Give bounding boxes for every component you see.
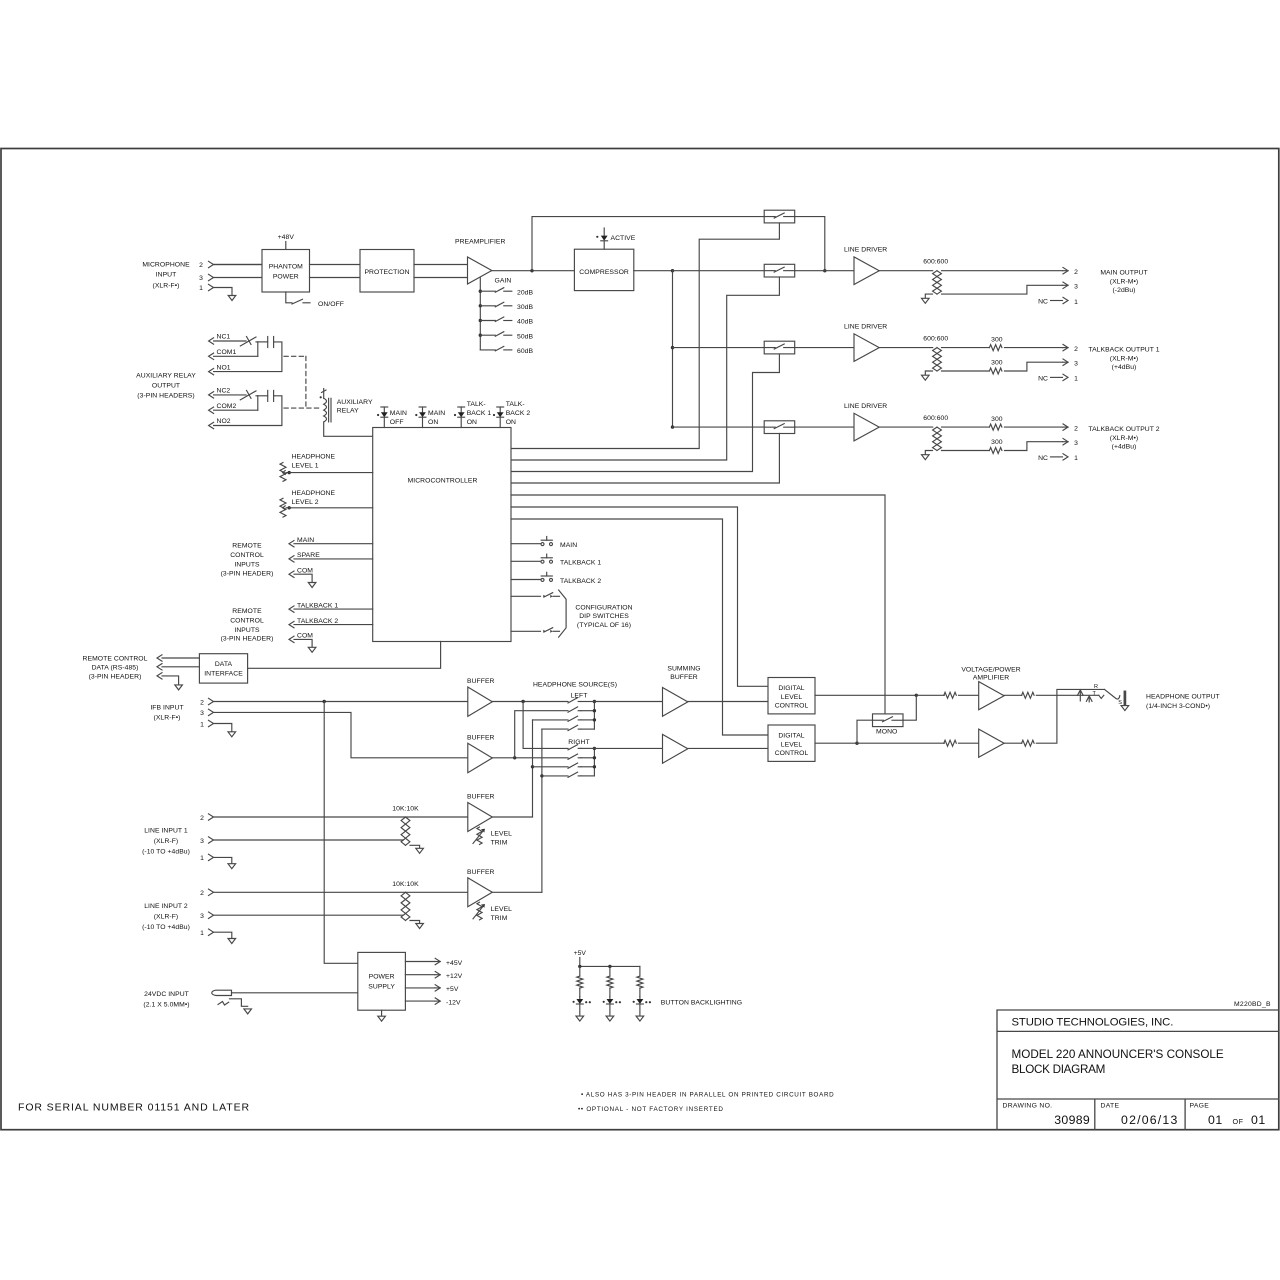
svg-text:(-10 TO +4dBu): (-10 TO +4dBu) <box>142 924 190 931</box>
wire 24VDC to power supply <box>232 992 358 994</box>
wire compressor junction down to talkback rows <box>672 271 674 427</box>
wire +48V to phantom power <box>285 242 287 250</box>
wire relay coil top lead <box>323 389 325 399</box>
relay contact NC1 <box>240 337 256 346</box>
pin RS485 A <box>157 655 162 661</box>
node compressor output junction <box>671 269 674 272</box>
svg-text:BACK 2: BACK 2 <box>506 410 531 417</box>
switch headphone source left 3 <box>568 716 578 721</box>
wire microcontroller to data interface <box>248 642 441 669</box>
svg-text:DRAWING NO.: DRAWING NO. <box>1003 1102 1053 1109</box>
protection box <box>360 250 414 293</box>
wire transformer 2 primary to ground <box>925 371 932 375</box>
wire right bus to summing buffer 2 <box>594 747 662 749</box>
svg-text:LEVEL: LEVEL <box>491 906 513 913</box>
svg-text:(3-PIN HEADERS): (3-PIN HEADERS) <box>137 392 194 399</box>
wire transformer 3 primary to ground <box>925 451 932 455</box>
wire feed to switchbox4 <box>673 426 765 428</box>
wire output 1 pin 2 <box>942 270 1063 272</box>
switch pushbutton MAIN <box>541 543 544 546</box>
svg-text:3: 3 <box>199 275 203 282</box>
node gain tap 50dB <box>479 334 482 337</box>
svg-text:LEVEL 2: LEVEL 2 <box>292 499 319 506</box>
node gain tap 20dB <box>479 290 482 293</box>
svg-text:S: S <box>1118 700 1122 706</box>
svg-text:TALKBACK OUTPUT 1: TALKBACK OUTPUT 1 <box>1088 346 1159 353</box>
power rail +5V <box>405 987 434 989</box>
svg-text:REMOTE: REMOTE <box>232 543 262 550</box>
LED backlight 1 <box>579 997 581 1000</box>
svg-text:2: 2 <box>1074 346 1078 353</box>
svg-text:MICROCONTROLLER: MICROCONTROLLER <box>408 477 478 484</box>
svg-text:INTERFACE: INTERFACE <box>204 670 243 677</box>
wire buffer1 to right bank <box>523 702 568 749</box>
svg-text:+5V: +5V <box>574 950 587 957</box>
wire mono left to DLC2 line <box>857 720 873 743</box>
svg-text:SUPPLY: SUPPLY <box>368 983 395 990</box>
svg-text:MAIN: MAIN <box>560 542 577 549</box>
svg-text:(XLR-M•): (XLR-M•) <box>1110 355 1138 362</box>
wire microcontroller to digital level control 1 <box>511 507 768 686</box>
jack ring lever <box>1105 689 1120 699</box>
wire output 1 pin 3 <box>942 285 1063 294</box>
ground backlight 1 <box>576 1016 584 1021</box>
auxiliary relay coil <box>324 398 327 422</box>
svg-text:2: 2 <box>200 699 204 706</box>
svg-text:MAIN: MAIN <box>297 537 314 544</box>
svg-text:LINE INPUT 2: LINE INPUT 2 <box>144 903 188 910</box>
svg-text:2: 2 <box>199 262 203 269</box>
node buffer2 split <box>513 756 516 759</box>
op-amp buffer 2 <box>468 743 493 772</box>
switch box talkback1 (switchbox3) <box>764 341 795 354</box>
svg-text:LEVEL 1: LEVEL 1 <box>292 463 319 470</box>
svg-text:TALKBACK 1: TALKBACK 1 <box>297 602 338 609</box>
svg-text:TALKBACK 2: TALKBACK 2 <box>297 618 338 625</box>
svg-text:2: 2 <box>200 890 204 897</box>
pin NO1 <box>209 368 214 374</box>
switch gain 30dB <box>480 305 495 307</box>
svg-text:3: 3 <box>200 913 204 920</box>
border frame <box>1 149 1279 1130</box>
wire LINE INPUT 2 pin2 to transformer/buffer <box>214 891 468 893</box>
wire DLC1 output <box>815 694 916 696</box>
svg-text:600:600: 600:600 <box>923 259 948 266</box>
phantom power box <box>262 250 310 293</box>
svg-text:3: 3 <box>1074 284 1078 291</box>
wire transformer 1 primary to ground <box>925 294 932 298</box>
data interface box <box>199 654 247 683</box>
svg-text:+48V: +48V <box>278 234 295 241</box>
wire left bank outputs bus <box>593 702 595 730</box>
node mono bottom junction <box>855 742 858 745</box>
pin NC2 <box>209 392 214 398</box>
wire IFB pin1 to ground <box>214 724 232 732</box>
LED TALK- BACK 1 ON <box>458 406 465 408</box>
wire amp1 to jack tip <box>1036 694 1099 696</box>
svg-text:2: 2 <box>1074 269 1078 276</box>
svg-text:TALK-: TALK- <box>467 401 486 408</box>
svg-text:REMOTE CONTROL: REMOTE CONTROL <box>83 655 148 662</box>
svg-text:•• OPTIONAL - NOT FACTORY INS: •• OPTIONAL - NOT FACTORY INSERTED <box>578 1106 724 1113</box>
wire relay coil to microcontroller <box>324 422 373 436</box>
wire mono right to DLC1 line <box>903 695 916 720</box>
power rail +45V <box>405 961 434 963</box>
dashed link contacts to relay coil <box>284 356 321 408</box>
svg-text:TALK-: TALK- <box>506 401 525 408</box>
svg-text:HEADPHONE SOURCE(S): HEADPHONE SOURCE(S) <box>533 682 617 689</box>
svg-text:NC2: NC2 <box>217 388 231 395</box>
svg-text:LINE DRIVER: LINE DRIVER <box>844 247 887 254</box>
switch box talkback2 (switchbox4) <box>764 421 795 434</box>
svg-text:LEVEL: LEVEL <box>491 831 513 838</box>
op-amp line driver 1 <box>854 257 879 285</box>
svg-text:1: 1 <box>200 855 204 862</box>
svg-text:(XLR-F•): (XLR-F•) <box>153 282 180 289</box>
wire backlight branch 2 <box>609 966 611 976</box>
svg-text:MICROPHONE: MICROPHONE <box>142 261 190 268</box>
wire output 3 pin 3 <box>942 450 990 452</box>
LED MAIN OFF <box>381 406 388 408</box>
wire switchbox3 control to microcontroller <box>511 354 779 472</box>
wire protection to preamp pin3 <box>414 277 468 279</box>
svg-text:HEADPHONE: HEADPHONE <box>292 454 336 461</box>
svg-text:600:600: 600:600 <box>923 336 948 343</box>
svg-text:LEVEL: LEVEL <box>781 694 803 701</box>
wire LINE INPUT 1 pin3 to transformer <box>214 839 403 841</box>
LED backlight 2 <box>609 997 611 1000</box>
svg-text:NO1: NO1 <box>217 364 231 371</box>
resistor amp2 output <box>1004 742 1022 744</box>
svg-text:STUDIO TECHNOLOGIES, INC.: STUDIO TECHNOLOGIES, INC. <box>1012 1017 1174 1029</box>
wire buffer2 to left bank row2 <box>515 711 568 758</box>
node talkback2 feed <box>671 425 674 428</box>
pin COM1 <box>209 353 214 359</box>
wire pushbutton MAIN <box>511 543 541 545</box>
switch headphone source left 2 <box>568 707 578 712</box>
svg-text:DIP SWITCHES: DIP SWITCHES <box>579 613 629 620</box>
svg-text:1: 1 <box>1074 376 1078 383</box>
ground COM 1 <box>308 583 316 588</box>
svg-text:+12V: +12V <box>446 973 463 980</box>
ground transformer 1 <box>922 298 930 303</box>
svg-text:RELAY: RELAY <box>337 408 359 415</box>
svg-text:(TYPICAL OF 16): (TYPICAL OF 16) <box>577 622 631 629</box>
pin RS485 B <box>157 664 162 670</box>
ground transformer 3 <box>922 455 930 460</box>
wire COM remote 2 to ground <box>294 639 312 647</box>
wire right bank outputs bus <box>593 748 595 776</box>
wire IFB pin2 to buffer1 <box>214 701 468 703</box>
svg-text:TALKBACK 1: TALKBACK 1 <box>560 560 601 567</box>
svg-text:FOR SERIAL NUMBER 01151 AND LA: FOR SERIAL NUMBER 01151 AND LATER <box>18 1102 250 1114</box>
svg-text:(+4dBu): (+4dBu) <box>1112 443 1137 450</box>
wire switchbox3 to line driver 2 <box>795 347 854 349</box>
wire COM2 common riser <box>257 396 259 411</box>
svg-text:OUTPUT: OUTPUT <box>152 382 180 389</box>
svg-text:AUXILIARY: AUXILIARY <box>337 399 373 406</box>
switch box bypass (switchbox1) <box>764 210 795 223</box>
switch gain 50dB <box>480 334 495 336</box>
svg-text:BUFFER: BUFFER <box>670 674 698 681</box>
svg-text:2: 2 <box>200 815 204 822</box>
svg-text:ON/OFF: ON/OFF <box>318 301 344 308</box>
svg-text:DATA (RS-485): DATA (RS-485) <box>92 664 139 671</box>
wire phantom to protection pin3 <box>310 277 361 279</box>
svg-text:(XLR-F): (XLR-F) <box>154 838 179 845</box>
svg-text:VOLTAGE/POWER: VOLTAGE/POWER <box>961 666 1020 673</box>
svg-text:02/06/13: 02/06/13 <box>1121 1113 1178 1127</box>
svg-text:SUMMING: SUMMING <box>667 665 700 672</box>
svg-text:NC: NC <box>1038 299 1048 306</box>
node wiper 2 <box>288 506 291 509</box>
svg-text:OF: OF <box>1233 1117 1244 1126</box>
level trim pot 1 <box>477 827 482 845</box>
op-amp line driver 3 <box>854 413 879 441</box>
switch headphone source right 3 <box>568 763 578 768</box>
wire transformer 2 secondary to ground <box>410 921 420 924</box>
svg-text:PREAMPLIFIER: PREAMPLIFIER <box>455 239 505 246</box>
wire buffer4 output to riser <box>492 891 542 893</box>
wire preamp output <box>492 270 532 272</box>
wire COM remote 1 to ground <box>294 574 312 582</box>
node gain tap 40dB <box>479 319 482 322</box>
resistor backlight 1 <box>577 976 583 988</box>
svg-text:ON: ON <box>428 419 438 426</box>
svg-text:MAIN: MAIN <box>428 410 445 417</box>
pin NO2 <box>209 422 214 428</box>
LED active <box>603 241 605 249</box>
barrel sleeve contact <box>218 1002 229 1006</box>
title block <box>997 1010 1279 1130</box>
switch headphone source left 1 <box>568 698 578 703</box>
ground mic pin1 <box>228 296 236 301</box>
node right bus top <box>593 747 596 750</box>
svg-text:COM: COM <box>297 633 313 640</box>
svg-text:IFB INPUT: IFB INPUT <box>150 704 183 711</box>
wire switchbox4 to line driver 3 <box>795 426 854 428</box>
wire TALKBACK 1 remote <box>294 608 373 610</box>
switch headphone source right 1 <box>568 745 578 750</box>
switch pushbutton TALKBACK 1 <box>541 560 544 563</box>
jack sleeve bar <box>1124 692 1127 705</box>
ground LINE INPUT 2 <box>228 939 236 944</box>
wire SPARE remote <box>294 558 373 560</box>
wire +5V rail <box>579 958 581 967</box>
svg-text:NC: NC <box>1038 455 1048 462</box>
svg-text:3: 3 <box>200 710 204 717</box>
wire line driver 1 to transformer <box>879 270 933 272</box>
relay contact NC2 <box>240 391 256 400</box>
node line2 right tap <box>540 774 543 777</box>
svg-text:HEADPHONE OUTPUT: HEADPHONE OUTPUT <box>1146 693 1220 700</box>
wire line input 1 feed riser <box>533 719 569 721</box>
op-amp voltage amp 2 <box>979 729 1004 757</box>
wire pushbutton TALKBACK 2 <box>511 579 541 581</box>
ground IFB <box>228 732 236 737</box>
switch box compressor path (switchbox2) <box>764 264 795 277</box>
wire mic pin2 to phantom <box>214 264 262 266</box>
svg-text:DATE: DATE <box>1101 1102 1120 1109</box>
wire pushbutton TALKBACK 1 <box>511 560 541 562</box>
svg-text:• ALSO HAS 3-PIN HEADER IN PA: • ALSO HAS 3-PIN HEADER IN PARALLEL ON P… <box>581 1091 834 1098</box>
svg-text:3: 3 <box>1074 361 1078 368</box>
svg-text:24VDC INPUT: 24VDC INPUT <box>144 991 189 998</box>
wire COM1 common riser <box>257 342 259 357</box>
switch headphone source left 4 <box>568 725 578 730</box>
potentiometer headphone level 1 <box>280 463 286 482</box>
wire summing buffer 2 to DLC2 <box>688 747 768 749</box>
svg-text:NC: NC <box>1038 375 1048 382</box>
resistor backlight 2 <box>607 976 613 988</box>
wire buffer3 output to riser <box>492 816 532 818</box>
microcontroller box <box>373 428 511 642</box>
mono switch box <box>873 714 904 727</box>
wire DLC2 output <box>815 742 857 744</box>
op-amp voltage amp 1 <box>979 682 1004 710</box>
wire LINE INPUT 2 pin1 to ground <box>214 932 232 938</box>
on/off switch <box>292 299 303 304</box>
node IFB pin2 to power supply tap <box>323 700 326 703</box>
ground transformer 10K #2 <box>416 924 424 929</box>
wire microcontroller to mono switch <box>511 495 885 714</box>
svg-text:INPUTS: INPUTS <box>234 627 260 634</box>
node talkback1 feed <box>671 346 674 349</box>
node wiper 1 <box>288 471 291 474</box>
node preamp output junction <box>530 269 533 272</box>
wire switchbox1 control to microcontroller <box>511 223 779 449</box>
wire MAIN remote <box>294 543 373 545</box>
svg-text:ON: ON <box>506 419 516 426</box>
level trim pot 2 <box>477 902 482 920</box>
svg-text:BACK 1: BACK 1 <box>467 410 492 417</box>
wire summing buffer 1 to DLC1 <box>688 701 768 703</box>
svg-text:LEVEL: LEVEL <box>781 741 803 748</box>
wire headphone level 2 to microcontroller <box>289 507 373 509</box>
resistor amp1 output <box>1004 694 1022 696</box>
svg-text:MAIN: MAIN <box>390 410 407 417</box>
barrel connector 24VDC <box>212 990 232 995</box>
switch dip bottom <box>543 630 545 633</box>
pin RS485 gnd <box>157 673 162 679</box>
svg-text:PROTECTION: PROTECTION <box>364 269 409 276</box>
wire compressor output <box>634 270 673 272</box>
svg-text:300: 300 <box>991 416 1003 423</box>
op-amp buffer 1 <box>468 687 493 716</box>
switch headphone source right 4 <box>568 772 578 777</box>
ground backlight 3 <box>636 1016 644 1021</box>
switch gain 40dB <box>480 320 495 322</box>
svg-text:MODEL 220 ANNOUNCER'S CONSOLE: MODEL 220 ANNOUNCER'S CONSOLE <box>1012 1048 1224 1061</box>
svg-text:TALKBACK OUTPUT 2: TALKBACK OUTPUT 2 <box>1088 426 1159 433</box>
brace dip switches <box>559 590 567 637</box>
wire feed to switchbox3 <box>673 347 765 349</box>
op-amp summing buffer 2 <box>663 734 688 763</box>
svg-text:(3-PIN HEADER): (3-PIN HEADER) <box>89 673 142 680</box>
wire dip switch top <box>511 595 541 597</box>
svg-text:DATA: DATA <box>215 661 233 668</box>
wire transformer 1 secondary to ground <box>410 845 420 848</box>
svg-text:AUXILIARY RELAY: AUXILIARY RELAY <box>136 372 196 379</box>
svg-text:(XLR-F•): (XLR-F•) <box>154 714 181 721</box>
svg-text:POWER: POWER <box>369 973 395 980</box>
svg-text:TRIM: TRIM <box>491 840 508 847</box>
op-amp buffer 4 <box>468 878 493 907</box>
switch gain 60dB <box>480 349 495 351</box>
switch pushbutton TALKBACK 2 <box>541 578 544 581</box>
wire protection to preamp pin2 <box>414 264 468 266</box>
svg-text:BUFFER: BUFFER <box>467 869 495 876</box>
node backlight rail 2 <box>608 965 611 968</box>
node buffer1 split <box>521 700 524 703</box>
wire switchbox2 control to microcontroller <box>511 277 779 460</box>
wire LINE INPUT 2 pin3 to transformer <box>214 914 403 916</box>
wire headphone level 1 to microcontroller <box>289 472 373 474</box>
wire switchbox2 output <box>795 270 825 272</box>
op-amp line driver 2 <box>854 334 879 362</box>
svg-text:T: T <box>1093 691 1097 697</box>
svg-text:1: 1 <box>1074 299 1078 306</box>
svg-text:SPARE: SPARE <box>297 552 320 559</box>
wire IFB tap down to power supply <box>324 702 358 964</box>
power supply box <box>358 952 406 1010</box>
svg-text:AMPLIFIER: AMPLIFIER <box>973 674 1009 681</box>
node backlight rail 1 <box>578 965 581 968</box>
wire line input 2 feed riser <box>542 728 568 730</box>
op-amp buffer 3 <box>468 803 493 832</box>
wire LINE INPUT 1 pin1 to ground <box>214 857 232 863</box>
svg-text:COM: COM <box>297 568 313 575</box>
svg-text:01: 01 <box>1251 1113 1266 1127</box>
wire TALKBACK 2 remote <box>294 624 373 626</box>
svg-text:TRIM: TRIM <box>491 915 508 922</box>
pin COM2 <box>209 407 214 413</box>
ground transformer 2 <box>922 375 930 380</box>
ground COM 2 <box>308 647 316 652</box>
svg-text:1: 1 <box>199 285 203 292</box>
svg-text:20dB: 20dB <box>517 289 533 296</box>
svg-text:CONTROL: CONTROL <box>230 618 264 625</box>
svg-text:1: 1 <box>1074 455 1078 462</box>
ground backlight 2 <box>606 1016 614 1021</box>
relay contact bars NC1 <box>256 341 268 343</box>
node left bus top <box>593 700 596 703</box>
digital level control 1 box <box>768 678 815 714</box>
node line driver 1 input junction <box>823 269 826 272</box>
svg-text:HEADPHONE: HEADPHONE <box>292 490 336 497</box>
svg-text:30dB: 30dB <box>517 304 533 311</box>
svg-text:300: 300 <box>991 360 1003 367</box>
svg-text:(-2dBu): (-2dBu) <box>1112 287 1135 294</box>
svg-text:+45V: +45V <box>446 960 463 967</box>
svg-text:MONO: MONO <box>876 728 897 735</box>
svg-text:10K:10K: 10K:10K <box>392 806 419 813</box>
wire phantom to protection pin2 <box>310 264 361 266</box>
wire IFB pin3 to buffer2 <box>214 712 468 757</box>
wire phantom to on/off switch <box>286 292 292 303</box>
svg-text:CONTROL: CONTROL <box>230 552 264 559</box>
wire backlight branch 1 <box>579 966 581 976</box>
svg-text:OFF: OFF <box>390 419 404 426</box>
wire power supply ground <box>381 1010 383 1016</box>
svg-text:300: 300 <box>991 439 1003 446</box>
svg-text:(1/4-INCH 3-COND•): (1/4-INCH 3-COND•) <box>1146 703 1210 710</box>
wire buffer1 output <box>492 701 568 703</box>
svg-text:NC1: NC1 <box>217 334 231 341</box>
svg-text:CONTROL: CONTROL <box>775 750 809 757</box>
ground jack sleeve <box>1121 706 1129 711</box>
svg-text:COM2: COM2 <box>217 403 237 410</box>
